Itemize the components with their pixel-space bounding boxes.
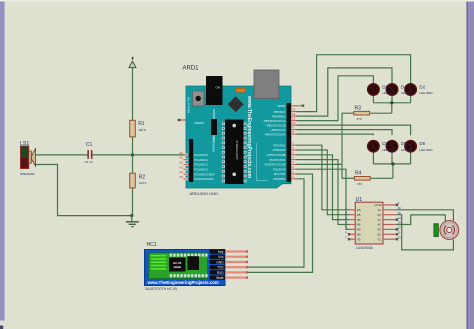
svg-text:GND: GND (216, 260, 224, 264)
wire pin12 to LED D4 (row1 mid) (297, 68, 393, 116)
window frame top line (0, 0, 474, 2)
svg-text:PD4/T0/XCK: PD4/T0/XCK (269, 158, 285, 162)
LED D4 (row1) (386, 84, 398, 96)
ULN pin 1 (1B) (345, 206, 360, 212)
wire ULN 4C to motor left (396, 215, 445, 225)
svg-text:COM: COM (374, 203, 382, 207)
svg-text:470: 470 (357, 117, 362, 121)
wire speaker top to A0 (through C1) (36, 154, 187, 156)
pin 4 (PD4/T0/XCK) (269, 155, 296, 161)
ULN pin 14 (3C) (378, 216, 402, 222)
ULN pin 5 (5B) (345, 226, 360, 232)
wire pin6 to ULN 2B (297, 150, 350, 215)
svg-text:10 nF: 10 nF (85, 160, 93, 164)
IC U1 ULN2003A body (355, 202, 383, 244)
pin 6 (~PD6/AIN0) (271, 146, 296, 152)
svg-text:A3: A3 (179, 165, 183, 169)
ULN pin 4 (4B) (345, 221, 360, 227)
pin AREF (stub, NC) (291, 105, 304, 107)
svg-text:11: 11 (292, 116, 295, 120)
resistor R4 (354, 177, 370, 181)
ground symbol (126, 222, 139, 227)
wire ULN 1C to motor top (396, 210, 453, 221)
ULN pin 6 (6B) (345, 231, 360, 237)
svg-text:R2: R2 (139, 174, 146, 180)
pin A1 (PC1/ADC1) (179, 156, 208, 162)
Arduino silkscreen line (257, 143, 269, 181)
svg-text:BLUETOOTH HC-05: BLUETOOTH HC-05 (146, 287, 178, 291)
svg-text:PC4/ADC4/SDA: PC4/ADC4/SDA (194, 172, 214, 176)
svg-text:~PD6/AIN0: ~PD6/AIN0 (271, 148, 286, 152)
junction node row1 bus (390, 101, 393, 104)
svg-text:7B: 7B (357, 237, 361, 241)
svg-text:R4: R4 (355, 171, 362, 177)
HC-05 pin GND (210, 260, 249, 265)
svg-text:~PD5/T1/OC0B: ~PD5/T1/OC0B (266, 153, 286, 157)
svg-text:100 K: 100 K (138, 128, 146, 132)
svg-text:Vcc: Vcc (218, 255, 224, 259)
resistor R2 (130, 173, 136, 188)
pin A4 (PC4/ADC4/SDA) (179, 170, 214, 176)
LED D1 (row1) (368, 84, 380, 96)
wire speaker bottom to ground (36, 165, 132, 216)
window frame bottom-left notch (0, 326, 3, 329)
svg-text:12: 12 (398, 226, 402, 230)
junction node at R1/R2 divider (131, 153, 134, 156)
pin 2 (PD2/INT0) (273, 165, 296, 171)
speaker LS1 (21, 146, 36, 169)
svg-text:PD7/AIN1: PD7/AIN1 (273, 143, 286, 147)
svg-text:~PB1/OC1A: ~PB1/OC1A (270, 128, 285, 132)
pin RESET (stub, NC) (178, 119, 186, 121)
svg-text:~PB2/SS/OC1B: ~PB2/SS/OC1B (266, 123, 286, 127)
pin 11 (~PB3/MOSI/OC2A) (262, 116, 296, 122)
svg-text:U1: U1 (356, 197, 363, 203)
wire LED row2 cathode bus to R4 (370, 152, 411, 179)
svg-text:ON: ON (216, 86, 221, 90)
svg-text:HC-05: HC-05 (173, 261, 182, 265)
pin A0 (PC0/ADC0) (179, 151, 208, 157)
HC-05 pads bottom row (170, 274, 208, 277)
svg-text:3B: 3B (357, 218, 361, 222)
pin 9 (~PB1/OC1A) (270, 125, 296, 131)
window frame left strip (0, 0, 5, 321)
pin A3 (PC3/ADC3) (179, 165, 208, 171)
LED D2 (row1) (405, 84, 417, 96)
svg-text:LED-RED: LED-RED (382, 148, 396, 152)
wire R2 to ground (132, 188, 134, 216)
ULN pin 11 (6C) (378, 231, 401, 237)
wire junction to R2 (132, 155, 134, 173)
HC-05 pin RXD (210, 270, 249, 275)
Arduino left pin header (189, 139, 193, 182)
ULN pin 10 (7C) (378, 235, 402, 241)
capacitor C1 (87, 150, 92, 159)
motor M1 (440, 221, 459, 240)
ULN pin 12 (5C) (378, 226, 402, 232)
svg-text:D1: D1 (382, 85, 388, 90)
svg-text:10: 10 (398, 235, 402, 239)
wire pin1 to HC-05 RXD (248, 174, 313, 272)
power terminal (+5V arrow) (129, 57, 136, 68)
pin 10 (~PB2/SS/OC1B) (266, 121, 297, 127)
Arduino ATmega328 chip U-main (222, 120, 247, 185)
wire pin5 to ULN 3B (297, 155, 350, 220)
resistor R1 (130, 120, 136, 137)
svg-text:10: 10 (292, 121, 296, 125)
HC-05 pin State (210, 276, 249, 281)
svg-text:RESET: RESET (195, 121, 205, 125)
svg-text:PC3/ADC3: PC3/ADC3 (194, 168, 208, 172)
Arduino crystal (diamond) (228, 96, 244, 112)
Arduino right pin header (287, 103, 292, 182)
motor indicator bar (434, 224, 439, 237)
HC-05 main chip (169, 258, 186, 272)
svg-text:6B: 6B (357, 233, 361, 237)
pin 8 (PB0/ICP1/CLKO) (265, 130, 297, 136)
svg-text:PB0/ICP1/CLKO: PB0/ICP1/CLKO (265, 132, 286, 136)
svg-text:PC1/ADC1: PC1/ADC1 (194, 158, 208, 162)
wire pin11 to LED D1 (row1 left) (297, 76, 374, 121)
wire R1 to junction (132, 137, 134, 155)
svg-text:13: 13 (292, 107, 296, 111)
svg-text:4B: 4B (357, 223, 361, 227)
ULN pin 3 (3B) (345, 216, 360, 222)
svg-text:LED-RE: LED-RE (401, 91, 412, 95)
svg-text:R1: R1 (138, 121, 145, 127)
svg-text:5B: 5B (357, 228, 361, 232)
svg-text:ULN2003A: ULN2003A (356, 246, 373, 250)
svg-text:A1: A1 (179, 156, 183, 160)
wire power to R1 (132, 68, 134, 121)
svg-text:2B: 2B (357, 213, 361, 217)
svg-text:LED-RED: LED-RED (419, 91, 433, 95)
svg-text:A5: A5 (179, 175, 183, 179)
HC-05 green PCB (149, 253, 208, 279)
svg-text:D6: D6 (419, 141, 425, 146)
wire pin4 to ULN 4B (297, 160, 350, 225)
wire pin0 to HC-05 TXD (248, 179, 304, 267)
Arduino orange power SMD (236, 88, 245, 92)
ULN pin 13 (4C) (378, 221, 402, 227)
svg-text:RXD: RXD (217, 271, 224, 275)
svg-text:ANALOG IN: ANALOG IN (212, 137, 216, 152)
ULN pin 7 (7B) (345, 235, 360, 241)
pin 12 (PB4/MISO) (272, 112, 296, 118)
svg-text:C1: C1 (86, 142, 93, 148)
Arduino power jack (206, 76, 223, 105)
svg-text:~PD3/INT1/OC2B: ~PD3/INT1/OC2B (263, 163, 285, 167)
wire ULN 2C to motor bottom loop (396, 215, 453, 250)
Arduino UNO board ARD1 (186, 86, 291, 188)
svg-text:D4: D4 (401, 85, 407, 90)
pin 7 (PD7/AIN1) (273, 141, 296, 147)
svg-text:PD0/RXD: PD0/RXD (273, 177, 285, 181)
svg-text:100 K: 100 K (139, 181, 147, 185)
wire LED row1 cathode bus to R3 (370, 95, 411, 113)
svg-text:AREF: AREF (277, 104, 285, 108)
wire pin10 to LED D6 (row2 right) (297, 125, 411, 135)
ULN pin 15 (2C) (378, 211, 402, 217)
svg-text:A2: A2 (179, 161, 183, 165)
svg-text:PD2/INT0: PD2/INT0 (273, 167, 286, 171)
svg-text:www.TheEngineeringProjects.com: www.TheEngineeringProjects.com (246, 95, 252, 179)
svg-text:PB4/MISO: PB4/MISO (272, 114, 286, 118)
wire pin2 to ULN 5B (297, 169, 350, 229)
pin 5 (~PD5/T1/OC0B) (266, 151, 297, 157)
svg-text:Key: Key (218, 250, 224, 254)
Arduino diode (211, 109, 217, 142)
svg-text:LED-RED: LED-RED (419, 148, 433, 152)
HC-05 antenna zigzag (151, 255, 167, 270)
svg-text:PD1/TXD: PD1/TXD (274, 172, 286, 176)
wire pin3 to R4 riser (297, 163, 343, 165)
svg-text:~PB3/MOSI/OC2A: ~PB3/MOSI/OC2A (262, 119, 285, 123)
svg-text:1B: 1B (357, 208, 361, 212)
pin 3 (~PD3/INT1/OC2B) (263, 160, 296, 166)
pin 1 (PD1/TXD) (274, 170, 297, 176)
LED D5 (row2) (386, 140, 398, 152)
junction node row2 bus (391, 162, 394, 165)
svg-text:ATMEGA328P: ATMEGA328P (235, 140, 239, 159)
wire pin13 to LED D2 (row1 right) (297, 55, 411, 112)
svg-text:LED-RE: LED-RE (401, 148, 412, 152)
svg-text:A4: A4 (179, 170, 183, 174)
svg-text:HC1: HC1 (147, 242, 157, 248)
svg-text:A0: A0 (179, 151, 183, 155)
svg-text:ARDUINO UNO: ARDUINO UNO (190, 191, 218, 196)
pin A5 (PC5/ADC5/SCL) (179, 175, 214, 181)
svg-text:LED-RED: LED-RED (382, 91, 396, 95)
junction node at ground (130, 214, 133, 217)
svg-text:SPEAKER: SPEAKER (20, 172, 35, 176)
svg-text:14: 14 (398, 216, 402, 220)
window frame right strip (467, 0, 474, 329)
LED D6 (row2) (405, 140, 417, 152)
pin A2 (PC2/ADC2) (179, 161, 208, 167)
svg-text:D5: D5 (401, 141, 407, 146)
svg-text:TXD: TXD (217, 266, 224, 270)
svg-text:State: State (216, 276, 224, 280)
ULN pin 16 (1C) (378, 206, 402, 212)
svg-text:www.TheEngineeringProjects.com: www.TheEngineeringProjects.com (147, 280, 219, 285)
svg-text:11: 11 (398, 231, 401, 235)
wire pin7 to ULN 1B (297, 145, 350, 210)
pin 0 (PD0/RXD) (273, 175, 296, 181)
svg-text:D3: D3 (382, 141, 388, 146)
svg-text:12: 12 (292, 112, 296, 116)
ULN pin 9 (COM) (374, 201, 399, 207)
pin 13 (PB5/SCK) (274, 107, 297, 113)
svg-text:LS1: LS1 (20, 141, 29, 147)
svg-text:PC2/ADC2: PC2/ADC2 (194, 163, 208, 167)
svg-text:PC5/ADC5/SCL: PC5/ADC5/SCL (194, 177, 214, 181)
wire R3 left / R4 left shared riser (342, 113, 354, 178)
Arduino USB connector (254, 70, 279, 99)
svg-text:Made E TW: Made E TW (187, 97, 191, 113)
svg-text:470: 470 (357, 182, 362, 186)
svg-text:PC0/ADC0: PC0/ADC0 (194, 153, 208, 157)
Bluetooth module HC1 board (145, 250, 226, 286)
svg-text:R3: R3 (355, 105, 362, 111)
HC-05 pin Key (210, 249, 249, 254)
HC-05 pin Vcc (210, 255, 249, 260)
LED D3 (row2) (368, 140, 380, 152)
wire pin8 to LED D3 (row2 left) (297, 134, 374, 135)
svg-text:PB5/SCK: PB5/SCK (274, 110, 286, 114)
ULN pin 2 (2B) (345, 211, 360, 217)
HC-05 second chip (188, 256, 200, 270)
resistor R3 (354, 111, 370, 115)
HC-05 pin TXD (210, 265, 249, 270)
svg-text:D2: D2 (419, 85, 425, 90)
HC-05 pads top row (170, 254, 208, 257)
svg-text:ARD1: ARD1 (183, 66, 200, 72)
Arduino reset button (193, 91, 205, 106)
wire pin9 to LED D5 (row2 mid) (297, 130, 393, 136)
